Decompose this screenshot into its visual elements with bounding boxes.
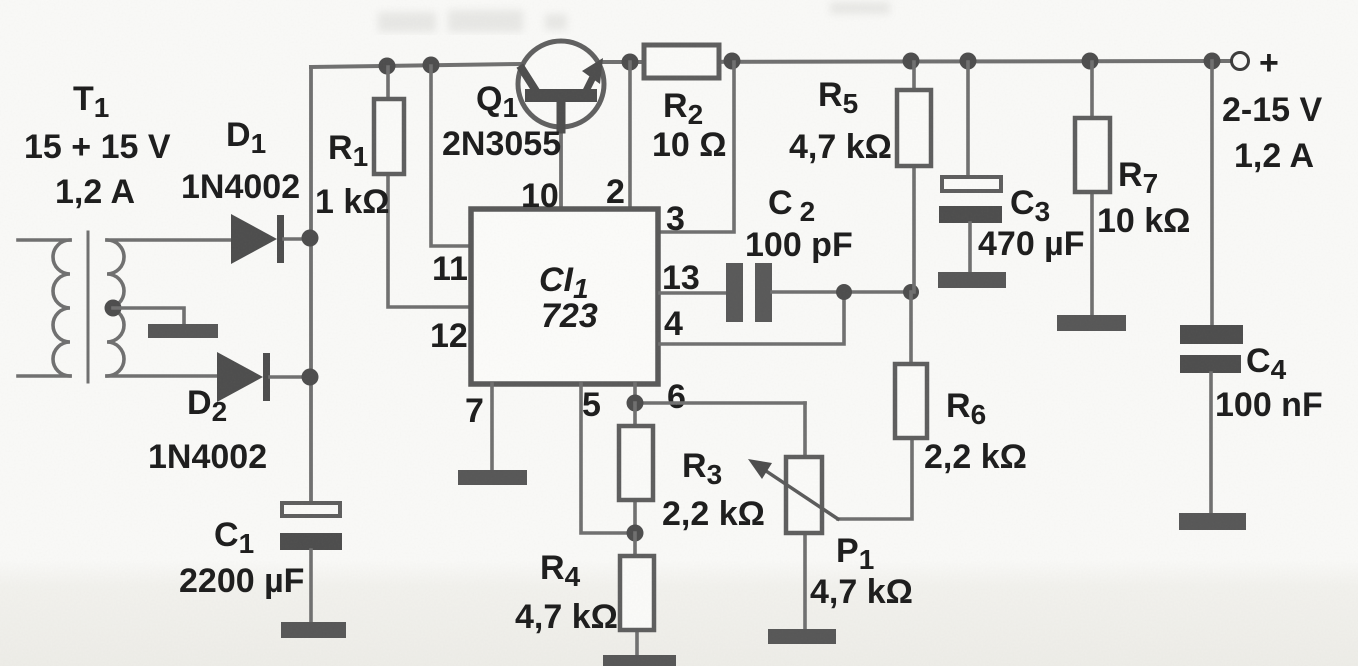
node rail pin11 — [423, 57, 440, 74]
resistor R7 — [1075, 62, 1110, 315]
wire pin 3 — [660, 62, 734, 232]
wire pin 5 — [581, 384, 635, 533]
ground C1 — [281, 622, 346, 638]
node rail R7 — [1082, 53, 1099, 70]
potentiometer P1 — [748, 403, 838, 629]
resistor R1 — [374, 67, 471, 307]
node D2 junction — [302, 369, 319, 386]
capacitor C1 — [280, 503, 342, 622]
IC CI1 box — [471, 209, 658, 384]
scan band bottom — [0, 560, 1358, 666]
ground R4 — [603, 655, 676, 666]
node R3 R4 — [627, 525, 644, 542]
node rail C3 — [960, 53, 977, 70]
wire pin 11 — [431, 66, 471, 246]
wire top rail left — [311, 64, 519, 67]
ground R7 — [1057, 315, 1126, 331]
transistor Q1 — [518, 41, 604, 209]
resistor R3 — [619, 403, 653, 533]
resistor R5 — [897, 62, 931, 292]
node rail R5 — [903, 53, 920, 70]
scan ghost top — [378, 2, 890, 32]
ground C3 — [938, 272, 1006, 288]
output terminal — [1232, 53, 1249, 70]
resistor R4 — [620, 533, 654, 655]
ground pin 7 — [458, 384, 527, 485]
node rail output — [1204, 53, 1221, 70]
wire center tap — [113, 308, 184, 324]
resistor R6 — [838, 292, 927, 519]
node R5 R6 — [903, 284, 919, 300]
node rail R1 — [379, 58, 396, 75]
capacitor C2 — [726, 263, 911, 322]
resistor R2 — [644, 45, 719, 78]
node D1 junction — [302, 230, 319, 247]
ground P1 — [768, 629, 836, 644]
node C2 pin4 — [836, 284, 852, 300]
ground transformer — [148, 324, 218, 338]
transformer T1 — [18, 232, 231, 382]
wire pin 6 — [635, 384, 805, 403]
node pin 6 — [627, 395, 644, 412]
wire pin 4 — [660, 292, 844, 344]
node rail R2 right — [724, 53, 741, 70]
diode D2 — [217, 352, 311, 402]
wire left vertical — [309, 67, 313, 503]
wire pin 13 — [660, 291, 726, 295]
wire pin 2 — [628, 62, 632, 209]
ground C4 — [1179, 513, 1246, 530]
node rail R2 left — [622, 54, 639, 71]
wire top rail right — [603, 61, 1231, 62]
capacitor C3 — [939, 62, 1002, 272]
capacitor C4 — [1180, 61, 1243, 513]
node center tap — [105, 300, 122, 317]
diode D1 — [231, 214, 311, 264]
